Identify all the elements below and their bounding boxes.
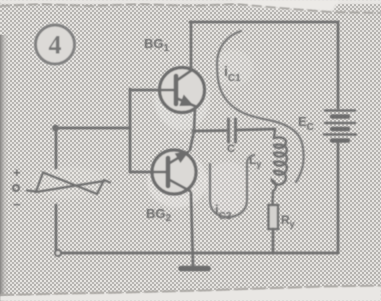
svg-text:−: − [13,197,21,212]
terminal bottom-left [55,250,61,256]
wire right rail upper [337,22,340,108]
battery EC [324,111,356,141]
capacitor C [229,119,236,142]
wire base feed horizontal [55,127,130,130]
wire BG1 base lead [130,89,160,92]
wire BG1 collector [190,22,193,68]
wire top rail [190,21,338,24]
wire capacitor to tank [238,129,276,130]
wire BG1 emitter to BG2 collector [190,108,195,150]
wire BG2 base lead [130,171,152,174]
wire left rail lower [55,205,58,250]
wire base bus vertical [129,89,132,172]
figure number 4 [36,25,75,64]
wire left rail upper [55,128,58,168]
source sawtooth [27,173,110,195]
wire coupling to capacitor [194,129,226,132]
wire BG2 emitter to ground [191,193,193,266]
transistor BG1 [160,68,205,113]
inductor Ly [272,129,287,205]
svg-text:C: C [227,143,235,155]
transistor BG2 [152,150,196,194]
terminal o [13,185,19,191]
wire bottom rail [62,252,338,255]
svg-text:4: 4 [49,31,62,60]
junction dot [52,125,59,132]
ground [181,266,208,272]
wire Ry to bottom rail [272,229,275,253]
current arrow iC1 [217,31,304,182]
resistor Ry [269,205,279,229]
wire right rail lower [337,143,340,253]
current arrow iC2 [210,155,254,217]
svg-text:+: + [13,165,21,180]
junction dot coupling node [191,128,196,133]
